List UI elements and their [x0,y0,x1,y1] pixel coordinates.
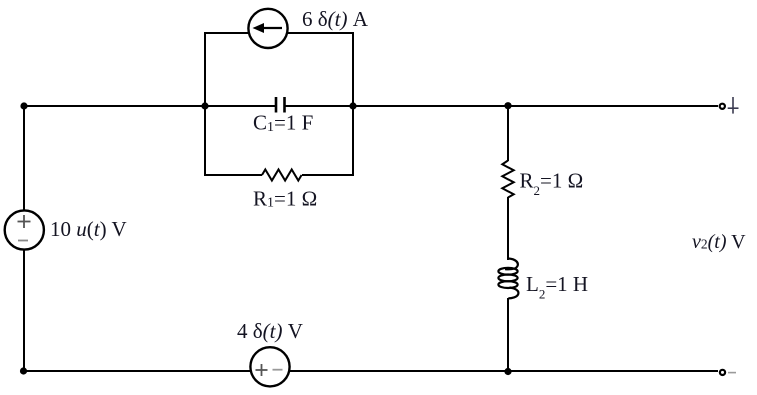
wire left vertical upper segment [23,106,25,210]
node dot top-left corner [20,102,27,109]
inductor L2 coil [498,259,518,299]
svg-text:v2(t) V: v2(t) V [692,231,746,253]
voltage source V1 plus sign [18,215,31,228]
wire R1 loop bottom right segment [302,174,354,176]
open terminal top right [720,104,725,109]
wire R1 loop right vertical [352,106,354,175]
wire right branch top segment (node to R2) [507,106,509,161]
open terminal bottom right [720,370,725,375]
svg-text:R1=1 Ω: R1=1 Ω [253,187,317,211]
wire R1 loop bottom left segment [204,174,262,176]
wire current-source loop right vertical [352,33,354,106]
voltage source V2 plus sign [256,364,268,376]
svg-text:C1=1 F: C1=1 F [253,111,313,136]
wire right branch middle segment (R2 to L2) [507,197,509,260]
svg-text:4 δ(t) V: 4 δ(t) V [237,319,303,343]
plus mark at top right terminal [728,97,739,114]
wire left vertical lower segment [23,250,25,371]
wire current-source loop top left segment [204,32,248,34]
wire right branch bottom segment (L2 to bottom wire) [507,298,509,371]
node dot at x=508 on main wire [504,102,511,109]
wire current-source loop top right segment [288,32,354,34]
voltage source V1 circle (10 u(t) V) [5,210,44,249]
current source I1 arrow [253,23,283,33]
voltage source V2 circle (4 delta(t) V) [250,347,289,386]
node dot at x=353 on main wire [349,102,356,109]
wire bottom horizontal left segment [24,370,250,372]
node dot bottom-left corner [20,367,27,374]
wire R1 loop left vertical [204,106,206,175]
minus mark at bottom right terminal [728,372,736,374]
resistor R1 zigzag [262,170,302,181]
wire top main horizontal left segment (node A to capacitor left plate) [24,105,275,107]
node dot at x=205 on main wire [201,102,208,109]
voltage source V1 minus sign [18,240,28,242]
capacitor C1 right plate [283,97,286,113]
wire bottom horizontal right segment [290,370,718,372]
resistor R2 zigzag (vertical) [502,161,513,198]
svg-text:10 u(t) V: 10 u(t) V [50,217,127,241]
voltage source V2 minus sign [273,369,283,371]
current source I1 circle [248,9,287,48]
wire current-source loop left vertical [204,33,206,106]
wire top main horizontal right segment (capacitor right plate to + terminal) [285,105,718,107]
node dot at x=508 on bottom wire [504,368,511,375]
svg-text:6 δ(t) A: 6 δ(t) A [302,7,369,31]
capacitor C1 left plate [275,97,278,113]
